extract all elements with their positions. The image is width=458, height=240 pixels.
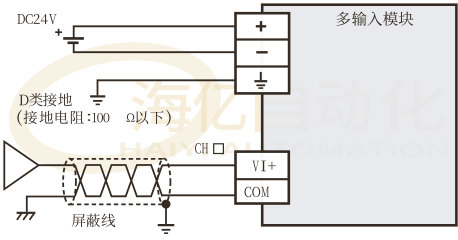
ground: chassis ground at source <box>17 212 36 214</box>
wire shield drain to earth <box>165 204 167 224</box>
label 屏蔽线 <box>72 214 86 227</box>
wire battery - riser <box>73 43 75 52</box>
label (接地电阻:100 Ω以下) <box>17 110 22 126</box>
ground: shield drain earth symbol <box>158 224 175 226</box>
label DC24V <box>17 14 25 24</box>
junction: shield drain node <box>162 200 171 209</box>
wire battery + to terminal + <box>73 25 236 27</box>
twisted pair wire B (signal return) <box>75 165 162 196</box>
label COM <box>245 187 252 197</box>
label CH and channel box <box>195 143 201 154</box>
shield right end ellipse <box>158 159 171 205</box>
ground: D-class earth symbol <box>90 95 105 97</box>
power terminal block <box>236 13 290 93</box>
wire battery + riser <box>73 26 75 38</box>
battery + polarity mark <box>55 29 62 36</box>
divider between + and - cells <box>236 38 290 40</box>
watermark <box>9 37 450 179</box>
battery DC24V negative plate <box>68 41 79 44</box>
wire signal + from source apex into cable <box>39 164 75 166</box>
wire terminal ground to D-class earth <box>98 80 236 95</box>
twisted pair wire A (signal +) <box>75 165 162 196</box>
label D类接地 <box>19 95 28 105</box>
terminal ground symbol <box>260 72 262 80</box>
wire battery - to terminal - <box>73 51 236 53</box>
terminal - symbol <box>256 51 267 53</box>
divider between VI+ and COM cells <box>236 178 289 180</box>
module 多输入模块 box <box>262 5 456 226</box>
divider between - and ground cells <box>236 65 290 67</box>
battery DC24V positive plate <box>63 37 84 40</box>
label VI+ <box>252 161 259 172</box>
input terminal block <box>236 152 289 204</box>
shield left end ellipse <box>63 159 76 205</box>
terminal + symbol <box>256 21 266 31</box>
label 多输入模块 <box>336 12 350 26</box>
wire signal return from source ground into cable <box>27 197 75 212</box>
signal source (sensor) triangle <box>4 142 38 190</box>
wire COM from cable to terminal <box>162 194 236 196</box>
wire VI+ from cable to terminal <box>162 164 236 166</box>
shield top <box>70 158 165 160</box>
shield bottom <box>70 203 165 205</box>
